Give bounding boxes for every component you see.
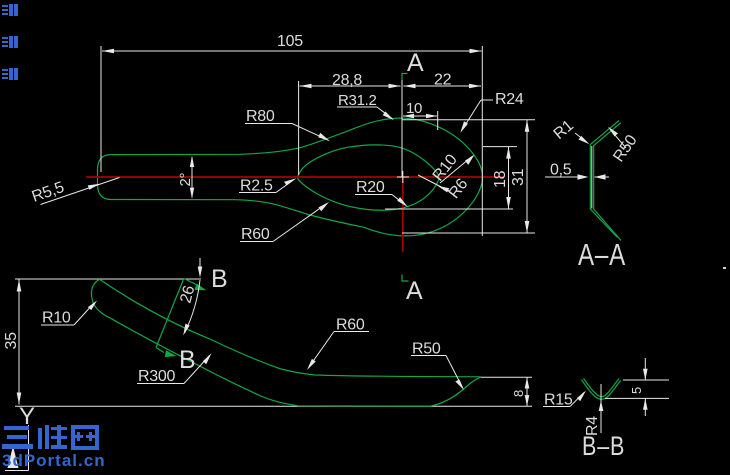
label R5,5 leader (rotated) [41,178,120,205]
svg-text:A: A [406,277,423,305]
dim 5: extension lines [623,379,669,381]
side profile: nose + top edge + tail + bottom edge (green) [91,279,110,318]
watermark mini glyphs top-left [2,4,18,80]
dim 105: dimension line [102,50,482,52]
dim 31: dimension line [526,120,528,233]
side profile bottom edge [110,318,481,406]
white center cross [397,176,409,178]
dim 26deg arc [185,280,201,333]
svg-text:0,5: 0,5 [550,162,572,179]
svg-text:A–A: A–A [578,237,626,272]
dim 12deg handle width: shaft and arrows [191,157,193,198]
svg-text:R50: R50 [412,341,441,358]
red vertical centerline of bowl [402,177,404,252]
ground line [15,405,532,407]
dim 5: dimension line with outside arrows [644,358,646,380]
dim 35: dimension line [18,280,20,405]
B-B curved strip: inner green line [584,378,620,396]
label R300 leader [137,383,184,385]
section marker A bottom green elbow [402,275,409,282]
dim 105 right arrow [470,49,482,54]
label R60 top view leader [240,241,273,243]
top extension line at y=279 [15,278,201,280]
svg-text:R10: R10 [42,310,71,327]
dim 22: dimension line [404,85,482,87]
top view: spoon bowl inner rim (inner egg) [298,145,440,210]
svg-text:B: B [179,346,196,374]
svg-text:R60: R60 [336,317,365,334]
section line A-A (white vertical) [401,74,403,177]
svg-text:R300: R300 [138,368,175,385]
label R60 side view leader [334,331,369,333]
svg-text:A: A [407,49,424,77]
label R50 side view leader [411,355,446,357]
top view: spoon outer outline [98,118,483,236]
svg-text:10: 10 [406,100,422,117]
label R31.2 leader [337,106,377,108]
svg-text:B–B: B–B [582,432,625,462]
svg-text:3dPortal.cn: 3dPortal.cn [2,451,106,470]
A-A thin strip: inner green line [594,123,621,241]
svg-text:R15: R15 [544,392,573,409]
B-B curved strip: outer green line [582,380,621,400]
dim 18: extension lines [483,146,517,148]
svg-text:5: 5 [629,387,644,394]
small white speck right edge [723,267,726,269]
svg-text:R2.5: R2.5 [240,178,273,195]
dim 28,8: dimension line [300,85,401,87]
dim 0,5 leaders [545,176,586,178]
A-A thin strip: outer green line [590,121,619,238]
label R20 leader [355,194,392,196]
section line B-B (green) [156,278,184,348]
label R80 leader [245,123,292,125]
A-A strip white centerline [591,146,593,209]
dim 105 left arrow [102,49,114,54]
label R4 vertical leader [600,384,602,433]
watermark logo 三维网 bottom-left [2,425,99,450]
svg-text:31: 31 [510,168,527,186]
dim 10 right extension line [437,111,439,130]
svg-text:105: 105 [277,33,303,50]
label R24 leader [481,99,493,101]
svg-text:35: 35 [3,332,20,350]
svg-text:R60: R60 [241,226,270,243]
label R1 leader (rotated) [575,133,587,142]
UCS Y axis line [28,425,30,471]
UCS X axis line [5,470,29,472]
维 [38,428,42,449]
green view arrow bottom of B [165,350,177,357]
dim 8 dimension line and arrows [526,377,528,406]
svg-text:R20: R20 [356,179,385,196]
svg-text:28,8: 28,8 [332,72,362,89]
svg-text:B: B [211,265,228,293]
label R15 leader [543,406,570,408]
svg-text:18: 18 [492,170,509,188]
dim 26deg: vertical tail and down arrow [199,258,201,270]
label R10 top view (rotated) with radial leader [440,157,472,184]
svg-text:2°: 2° [177,172,194,186]
dim 8: top extension from tail tip [481,376,532,378]
label R10 side view leader [41,324,74,326]
dim 105 right extension line [481,46,483,236]
svg-text:R31.2: R31.2 [338,92,377,109]
label R6 (rotated) with radial leader [418,175,450,192]
dim 18: dimension line [508,147,510,209]
section marker A top green elbow [402,74,408,81]
svg-text:Y: Y [19,403,35,430]
dim 31: extension lines [402,119,535,121]
svg-text:R24: R24 [495,91,524,108]
svg-text:22: 22 [434,72,452,89]
UCS arrow triangle [8,446,19,468]
三 [4,426,29,430]
dim 105 left extension line [100,46,102,172]
green view arrow top of B [184,279,196,285]
svg-text:8: 8 [511,390,526,397]
red horizontal centerline of top view [86,176,504,178]
side profile top edge [100,279,481,377]
label R50 section A-A (rotated) [611,130,627,148]
网 [71,425,99,450]
svg-text:R80: R80 [246,108,275,125]
dim 28,8 left extension line [298,81,300,175]
dim 10: dimension line [403,115,437,117]
label R2.5 leader [239,192,276,194]
